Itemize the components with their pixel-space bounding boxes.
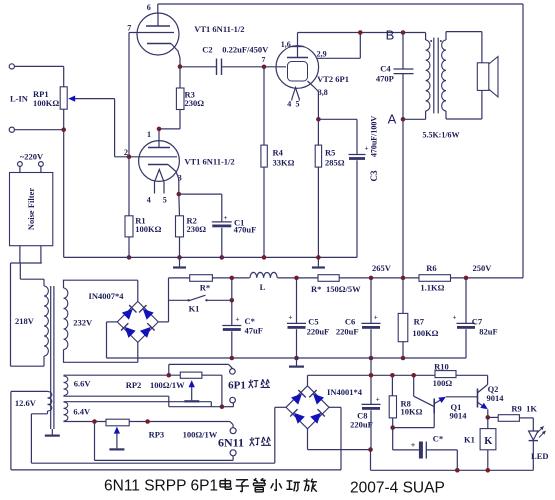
- title cjk 管: [254, 478, 257, 480]
- transformer OPT primary winding: [426, 40, 430, 111]
- relay coil K: [487, 417, 489, 428]
- wire B to C4: [402, 33, 404, 70]
- svg-text:230Ω: 230Ω: [185, 98, 205, 108]
- node C* bottom: [230, 356, 235, 361]
- node 265V R7 top: [401, 276, 406, 281]
- node R1 bottom: [127, 255, 132, 260]
- wire C* right: [426, 449, 457, 451]
- jack mains 2: [39, 162, 44, 167]
- bridge IN4001 diode TR: [313, 394, 324, 405]
- node R8 top: [390, 373, 395, 378]
- wire right border B+ drop: [522, 4, 524, 278]
- svg-text:B: B: [386, 28, 395, 43]
- svg-text:6P1: 6P1: [228, 380, 246, 392]
- svg-text:1.1KΩ: 1.1KΩ: [420, 282, 444, 292]
- node C8 rail: [369, 373, 374, 378]
- svg-text:6: 6: [147, 3, 151, 12]
- svg-text:100Ω/1W: 100Ω/1W: [150, 380, 185, 390]
- bridge IN4007 diode TR: [143, 309, 154, 320]
- svg-text:RP2: RP2: [126, 380, 142, 390]
- svg-text:82uF: 82uF: [479, 327, 497, 337]
- title cjk 电: [224, 478, 226, 489]
- wire 6P1 terminal top path: [168, 364, 170, 375]
- svg-text:VT2 6P1: VT2 6P1: [317, 74, 349, 84]
- svg-text:RP3: RP3: [149, 430, 165, 440]
- node R* right: [230, 276, 235, 281]
- wire 6P1 terminal bottom path: [222, 406, 234, 408]
- svg-text:C*: C*: [245, 316, 255, 326]
- wire C* bottom: [231, 331, 233, 358]
- svg-text:C4: C4: [380, 64, 391, 74]
- wire VT2 plate out: [317, 57, 361, 59]
- tube VT1 upper grid pin 7: [129, 32, 174, 34]
- svg-text:C6: C6: [345, 317, 355, 327]
- svg-text:Noise Filter: Noise Filter: [26, 188, 36, 230]
- title cjk 小: [275, 479, 277, 491]
- tube VT1 upper pin 6 lead: [157, 4, 159, 13]
- wire primary bottom stub: [43, 356, 45, 366]
- node Q1 collector rail: [411, 373, 416, 378]
- wire C7 bottom: [465, 329, 467, 358]
- wire C8 top: [370, 358, 372, 404]
- svg-text:4: 4: [287, 100, 291, 109]
- svg-text:1,6: 1,6: [281, 40, 291, 49]
- resistor R4: [263, 67, 265, 145]
- resistor R5: [317, 119, 319, 145]
- bridge IN4007 diode BR: [140, 327, 151, 338]
- svg-text:+: +: [224, 214, 228, 222]
- svg-text:+: +: [374, 314, 378, 322]
- wire A to 265V rail: [402, 119, 404, 278]
- wire C5 bottom: [296, 329, 298, 358]
- wire relay supply rail: [308, 374, 436, 376]
- node cathode VT1 lower: [177, 192, 182, 197]
- tube VT2 heater: [292, 88, 300, 100]
- transformer 6.4V winding: [64, 402, 68, 421]
- node VT2 cathode: [316, 117, 321, 122]
- wire primary loop left V4: [10, 263, 12, 366]
- transformer core: [50, 286, 52, 429]
- svg-text:1: 1: [147, 130, 151, 139]
- node Q2 emitter: [486, 415, 491, 420]
- wire R10 right to Q2 collector: [456, 374, 488, 376]
- wire ground rail 358: [107, 357, 467, 359]
- capacitor C2: [216, 59, 218, 76]
- svg-text:9014: 9014: [450, 411, 468, 421]
- tube VT2 top cap lead: [297, 33, 299, 58]
- potentiometer RP3: [106, 419, 129, 426]
- svg-text:6N11 SRPP 6P1: 6N11 SRPP 6P1: [104, 478, 218, 495]
- svg-text:C*: C*: [433, 434, 443, 444]
- wire NF link V5: [19, 263, 21, 279]
- ground below R2: [179, 257, 181, 266]
- svg-text:33KΩ: 33KΩ: [273, 157, 295, 167]
- tube VT2 plate: [287, 57, 308, 59]
- capacitor C7: [465, 278, 467, 324]
- wire 232V loop bottom: [63, 361, 138, 363]
- svg-text:K1: K1: [464, 435, 475, 445]
- wire rail B right riser: [340, 407, 342, 470]
- transformer OPT secondary top: [445, 32, 447, 40]
- speaker: [477, 63, 489, 91]
- tube VT1 lower heater: [155, 170, 165, 183]
- svg-text:4: 4: [147, 196, 151, 205]
- wire K bottom: [487, 450, 489, 471]
- resistor R6: [419, 275, 451, 282]
- svg-text:100Ω: 100Ω: [433, 378, 453, 388]
- wire VT2 grid: [264, 66, 286, 68]
- tube VT1 lower plate: [158, 141, 160, 148]
- node lower grid: [127, 155, 132, 160]
- wire 6.6V top: [64, 374, 181, 376]
- capacitor C8: [362, 403, 381, 405]
- svg-text:100KΩ: 100KΩ: [33, 98, 59, 108]
- svg-text:R4: R4: [273, 147, 284, 157]
- svg-text:R7: R7: [414, 317, 425, 327]
- svg-text:6.6V: 6.6V: [74, 378, 92, 388]
- transistor Q1: [413, 375, 415, 396]
- wire bottom right rail D: [371, 469, 534, 471]
- svg-text:~220V: ~220V: [20, 152, 44, 162]
- svg-text:230Ω: 230Ω: [187, 224, 207, 234]
- wire NF out left: [19, 246, 21, 263]
- wire bridge right out: [158, 321, 168, 323]
- node R2 bottom: [177, 255, 182, 260]
- svg-text:3: 3: [178, 174, 182, 183]
- wire R9: [488, 416, 498, 418]
- bridge IN4007 diamond: [117, 301, 158, 342]
- bridge IN4007 diode BL: [125, 327, 136, 338]
- wire K1 left drop: [168, 278, 170, 322]
- node pin8: [178, 64, 183, 69]
- wire IN4001 top out: [307, 375, 309, 386]
- resistor R9: [498, 415, 519, 422]
- node B: [401, 30, 406, 35]
- node RP2 left: [167, 373, 172, 378]
- svg-text:VT1 6N11-1/2: VT1 6N11-1/2: [194, 24, 244, 34]
- wire rail A right riser: [274, 407, 276, 463]
- jack L-IN gnd: [9, 127, 14, 132]
- wire primary top H2: [20, 278, 44, 280]
- wire 6N11 heater return: [232, 456, 234, 461]
- terminal 6P1 heater 2: [230, 397, 236, 403]
- ground RP3: [109, 448, 124, 450]
- svg-text:3,8: 3,8: [318, 88, 328, 97]
- wire 12.6V top: [11, 390, 48, 392]
- svg-text:L-IN: L-IN: [10, 94, 29, 104]
- wire Q1 base drop: [433, 414, 435, 428]
- transformer OPT primary bottom: [425, 111, 427, 119]
- svg-text:9014: 9014: [487, 393, 505, 403]
- capacitor C* 47uF: [222, 325, 241, 327]
- svg-text:218V: 218V: [15, 316, 35, 326]
- wire 6.4V top: [64, 401, 212, 403]
- svg-text:L: L: [260, 282, 266, 292]
- potentiometer RP2: [180, 372, 202, 378]
- tube VT2 cathode lead: [308, 81, 319, 119]
- wire B+ top line: [158, 3, 523, 5]
- svg-text:2007-4 SUAP: 2007-4 SUAP: [350, 480, 445, 497]
- wire LED bottom: [532, 441, 534, 471]
- svg-text:10KΩ: 10KΩ: [401, 407, 423, 417]
- wire primary loop bottom H3: [11, 365, 45, 367]
- svg-text:+: +: [453, 314, 457, 322]
- svg-text:+: +: [365, 145, 369, 153]
- wire rail A bottom: [31, 462, 274, 464]
- svg-text:220uF: 220uF: [336, 327, 359, 337]
- wire 12.6V bottom: [47, 411, 49, 414]
- svg-text:VT1 6N11-1/2: VT1 6N11-1/2: [184, 157, 234, 167]
- capacitor C1: [212, 221, 232, 223]
- resistor R10: [435, 371, 456, 378]
- svg-text:220uF: 220uF: [307, 327, 330, 337]
- svg-text:47uF: 47uF: [245, 326, 263, 336]
- capacitor C3: [349, 154, 366, 156]
- title cjk 子: [236, 479, 248, 481]
- transformer OPT phase dots: [430, 40, 432, 42]
- wire speaker top: [481, 32, 483, 63]
- resistor R1: [128, 157, 130, 216]
- wire C3 bottom: [356, 160, 358, 257]
- ground below R5: [317, 257, 319, 266]
- svg-text:150Ω/5W: 150Ω/5W: [326, 284, 361, 294]
- wire C2 to VT2 grid node: [222, 66, 265, 68]
- resistor R* fuse: [190, 275, 213, 282]
- node C7 top: [464, 276, 469, 281]
- node pin1: [157, 127, 162, 132]
- svg-text:100Ω/1W: 100Ω/1W: [183, 430, 218, 440]
- transformer secondary 232V winding: [63, 280, 65, 288]
- svg-text:K1: K1: [189, 304, 200, 314]
- wire pin8 to C2: [180, 66, 217, 68]
- svg-text:C2: C2: [202, 45, 212, 55]
- wire Q2 emitter down: [487, 409, 489, 417]
- wire C1 bottom: [221, 228, 223, 258]
- wire R3 bottom to pin1: [159, 128, 180, 130]
- wire rail B bottom: [11, 469, 341, 471]
- wire NF link H1: [11, 262, 42, 264]
- svg-text:IN4001*4: IN4001*4: [327, 387, 363, 397]
- svg-text:K: K: [484, 436, 493, 447]
- capacitor C* 47uF lead: [231, 278, 233, 326]
- node C5 bottom: [294, 356, 299, 361]
- node R7 bottom: [401, 356, 406, 361]
- ground transformer core: [51, 429, 53, 435]
- node RP1 bottom: [61, 127, 66, 132]
- node K1 right: [230, 298, 235, 303]
- svg-text:1K: 1K: [526, 404, 537, 414]
- node K bottom: [486, 468, 491, 473]
- op tube VT1 upper half envelope: [137, 13, 179, 55]
- resistor R7: [402, 278, 404, 314]
- wire R9 to LED: [519, 417, 533, 419]
- svg-text:5: 5: [163, 196, 167, 205]
- pot RP3 wiper: [116, 429, 118, 448]
- resistor R8: [391, 375, 393, 396]
- node C1 bottom: [220, 255, 225, 260]
- tube VT1 lower cathode: [148, 164, 168, 166]
- node plate line junction: [358, 30, 363, 35]
- transformer OPT primary top: [403, 32, 426, 34]
- svg-text:5: 5: [296, 100, 300, 109]
- svg-text:+: +: [411, 441, 416, 450]
- svg-text:285Ω: 285Ω: [325, 157, 345, 167]
- transformer 12.6V winding: [48, 391, 52, 411]
- capacitor C4: [394, 68, 414, 70]
- wire RP2 right: [202, 374, 222, 376]
- wire C4 to A: [402, 74, 404, 120]
- capacitor C5: [296, 278, 298, 324]
- bridge IN4001 diamond: [286, 386, 329, 429]
- pot RP2 wiper: [191, 383, 193, 401]
- wire C* left: [392, 428, 394, 450]
- svg-text:100KΩ: 100KΩ: [135, 224, 161, 234]
- wire IN4001 bottom out: [307, 429, 309, 450]
- tube VT1 upper cathode: [147, 43, 171, 45]
- node C6 top: [369, 276, 374, 281]
- wire cathode to C3: [318, 118, 357, 120]
- terminal 6N11 heater 1: [230, 428, 236, 434]
- svg-text:100KΩ: 100KΩ: [412, 328, 438, 338]
- node C* right bottom: [455, 468, 460, 473]
- wire pin7 to lower grid: [128, 33, 130, 157]
- ground RP2: [184, 400, 199, 402]
- wire bridge left out: [107, 321, 118, 323]
- node R8 bottom: [390, 425, 395, 430]
- choke L: [250, 272, 278, 279]
- tube VT1 upper plate: [157, 14, 159, 27]
- svg-text:6N11: 6N11: [218, 436, 244, 450]
- svg-text:5.5K:1/6W: 5.5K:1/6W: [422, 131, 459, 140]
- transformer 6.6V winding: [64, 376, 68, 396]
- resistor R* 150: [318, 275, 339, 282]
- node 6.4V tap: [92, 419, 97, 424]
- title cjk 放: [305, 479, 308, 480]
- svg-text:C3: C3: [369, 170, 379, 181]
- node 6.4V right: [145, 419, 150, 424]
- tube VT1 lower half envelope: [139, 141, 180, 182]
- wire 6.6V bottom: [64, 395, 169, 397]
- tube VT1 lower grid: [115, 156, 177, 158]
- svg-text:470uF/100V: 470uF/100V: [370, 116, 379, 158]
- svg-text:250V: 250V: [473, 263, 493, 273]
- svg-text:C7: C7: [472, 317, 483, 327]
- transformer OPT secondary winding: [442, 40, 446, 111]
- node after choke: [294, 276, 299, 281]
- wire cathode to C1: [179, 193, 222, 195]
- svg-text:R9: R9: [511, 404, 521, 414]
- potentiometer RP1: [63, 66, 65, 86]
- node R5 bottom: [316, 255, 321, 260]
- wire plate top line: [298, 32, 404, 34]
- wire pin1 lead: [158, 129, 160, 141]
- svg-text:R6: R6: [426, 263, 436, 273]
- switch K1: [169, 299, 189, 301]
- wire main ground rail: [64, 256, 357, 258]
- transformer primary 218V winding: [44, 286, 48, 356]
- svg-text:+: +: [376, 396, 380, 404]
- terminal 6P1 heater 1: [230, 369, 236, 375]
- ground below C5: [296, 358, 298, 366]
- node C6 C8 junction: [369, 356, 374, 361]
- svg-text:265V: 265V: [372, 263, 392, 273]
- svg-text:A: A: [388, 112, 397, 127]
- svg-text:+: +: [289, 314, 293, 322]
- capacitor C* timing: [419, 442, 423, 459]
- wire 6.4V bottom right: [129, 421, 230, 423]
- svg-text:C5: C5: [308, 317, 318, 327]
- svg-text:0.22uF/450V: 0.22uF/450V: [222, 45, 269, 55]
- wire C6 bottom: [370, 329, 372, 358]
- wire rail C drop: [370, 450, 372, 471]
- svg-text:R*: R*: [311, 284, 321, 294]
- LED D1: [529, 431, 538, 440]
- wire 232V loop top: [63, 279, 138, 281]
- svg-text:R*: R*: [200, 283, 210, 293]
- node VT2 grid: [262, 65, 267, 70]
- svg-text:6.4V: 6.4V: [73, 407, 91, 417]
- bridge IN4001 diode TL: [291, 394, 302, 405]
- wire 12.6V left drop: [10, 391, 12, 470]
- jack L-IN hot: [9, 64, 14, 69]
- transistor Q2: [477, 389, 479, 408]
- svg-text:R10: R10: [434, 362, 449, 372]
- svg-text:220uF: 220uF: [350, 420, 373, 430]
- noise filter box: [10, 173, 53, 246]
- svg-text:+: +: [236, 316, 240, 324]
- svg-text:R5: R5: [325, 147, 335, 157]
- wire 6.4V bottom left: [64, 421, 107, 423]
- svg-text:232V: 232V: [73, 318, 93, 328]
- bridge IN4007 diode TL: [122, 309, 133, 320]
- node RP2 right bottom: [220, 404, 225, 409]
- terminal 6N11 heater 2: [230, 450, 236, 456]
- wire speaker bottom: [481, 90, 483, 119]
- svg-text:IN4007*4: IN4007*4: [89, 291, 125, 301]
- bridge IN4001 diode BL: [294, 413, 305, 424]
- transformer OPT core: [433, 38, 435, 114]
- wire 265V rail: [169, 277, 524, 279]
- wire C8 bottom: [370, 410, 372, 449]
- resistor R2: [178, 194, 181, 216]
- tube VT2 envelope: [276, 46, 319, 89]
- title cjk 功: [287, 480, 293, 482]
- svg-text:7: 7: [262, 55, 266, 64]
- wire NF out right: [40, 246, 42, 263]
- wire Q1 emitter to Q2 base: [446, 396, 478, 398]
- svg-text:2,9: 2,9: [317, 50, 327, 59]
- svg-text:470P: 470P: [376, 74, 394, 84]
- capacitor C6: [370, 278, 372, 324]
- jack mains 1: [18, 162, 23, 167]
- node A: [401, 117, 406, 122]
- wire RP1 wiper: [71, 98, 115, 100]
- tube VT2 screen box: [288, 62, 308, 82]
- bridge IN4001 diode BR: [310, 413, 321, 424]
- node R4 bottom: [262, 255, 267, 260]
- resistor R3: [179, 67, 181, 88]
- node rail C C8: [368, 447, 373, 452]
- wire rail C: [308, 449, 371, 451]
- svg-text:7: 7: [127, 24, 131, 33]
- wire input gnd drop: [63, 130, 65, 258]
- svg-text:470uF: 470uF: [234, 224, 257, 234]
- svg-text:12.6V: 12.6V: [15, 398, 37, 408]
